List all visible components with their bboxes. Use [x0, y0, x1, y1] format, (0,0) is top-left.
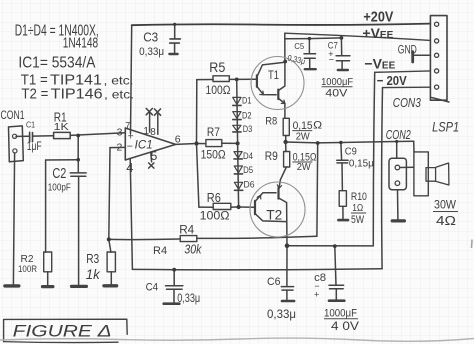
svg-text:D2: D2 — [242, 111, 252, 122]
svg-text:100Ω: 100Ω — [200, 211, 230, 223]
svg-text:100pF: 100pF — [48, 182, 71, 194]
svg-text:0,33μ: 0,33μ — [177, 293, 200, 305]
svg-text:T2: T2 — [266, 208, 282, 223]
svg-text:0,15: 0,15 — [293, 120, 313, 132]
svg-text:FIGURE Δ: FIGURE Δ — [13, 322, 112, 341]
svg-text:30k: 30k — [184, 243, 202, 257]
svg-text:, etc.: , etc. — [104, 88, 134, 102]
svg-text:D6: D6 — [244, 179, 255, 190]
svg-text:R4: R4 — [153, 245, 167, 257]
svg-text:LSP1: LSP1 — [432, 118, 459, 134]
svg-text:R10: R10 — [351, 191, 367, 203]
svg-text:4: 4 — [126, 160, 133, 175]
svg-text:1000μF: 1000μF — [324, 308, 357, 320]
svg-text:C4: C4 — [146, 282, 159, 294]
svg-text:2W: 2W — [296, 132, 311, 143]
svg-text:C6: C6 — [267, 276, 281, 288]
svg-text:Ω: Ω — [313, 119, 322, 131]
svg-text:C3: C3 — [143, 30, 158, 44]
svg-text:8: 8 — [150, 127, 156, 138]
svg-text:CON2: CON2 — [386, 127, 412, 142]
svg-text:4 0V: 4 0V — [331, 319, 359, 333]
svg-text:, etc.: , etc. — [104, 74, 134, 88]
svg-text:150Ω: 150Ω — [201, 150, 226, 162]
svg-text:C5: C5 — [294, 41, 304, 51]
svg-text:R3: R3 — [86, 252, 99, 266]
svg-text:2W: 2W — [297, 162, 312, 173]
svg-text:30W: 30W — [434, 200, 456, 212]
svg-text:CON1: CON1 — [1, 108, 25, 122]
svg-text:1000μF: 1000μF — [321, 76, 353, 88]
svg-text:6: 6 — [175, 134, 181, 146]
svg-text:TIP146: TIP146 — [51, 86, 103, 103]
svg-text:+20V: +20V — [363, 10, 393, 26]
svg-text:R6: R6 — [207, 191, 221, 205]
svg-text:3: 3 — [117, 127, 123, 139]
svg-text:−: − — [127, 141, 133, 153]
svg-text:C1: C1 — [26, 120, 35, 130]
svg-text:4Ω: 4Ω — [436, 214, 456, 228]
svg-text:1: 1 — [143, 125, 149, 137]
svg-text:5W: 5W — [351, 214, 364, 226]
svg-text:1μF: 1μF — [27, 139, 42, 153]
svg-text:1K: 1K — [54, 122, 69, 133]
svg-text:IC1: IC1 — [135, 140, 153, 152]
svg-text:R8: R8 — [265, 116, 277, 128]
svg-text:D5: D5 — [243, 165, 253, 176]
svg-text:−: − — [329, 55, 334, 65]
svg-text:D1: D1 — [242, 96, 252, 107]
svg-text:+: + — [314, 290, 319, 300]
svg-text:1N4148: 1N4148 — [63, 36, 98, 52]
svg-text:1k: 1k — [86, 266, 101, 282]
svg-text:0,33μ: 0,33μ — [267, 307, 296, 321]
svg-text:R7: R7 — [207, 125, 220, 139]
svg-text:T1: T1 — [268, 70, 279, 82]
svg-text:R9: R9 — [265, 149, 278, 163]
svg-text:100R: 100R — [18, 264, 37, 275]
svg-text:GND: GND — [398, 44, 417, 56]
svg-text:IC1= 5534/A: IC1= 5534/A — [18, 55, 95, 72]
svg-text:C9: C9 — [345, 147, 357, 158]
svg-text:0,33μ: 0,33μ — [139, 46, 164, 58]
svg-text:− 20V: − 20V — [377, 73, 407, 88]
svg-text:100Ω: 100Ω — [206, 85, 231, 97]
svg-text:R5: R5 — [209, 59, 225, 75]
svg-text:40V: 40V — [325, 88, 348, 100]
svg-text:D4: D4 — [243, 151, 253, 162]
svg-text:C2: C2 — [52, 166, 66, 182]
svg-text:T2 =: T2 = — [21, 86, 48, 103]
svg-text:D3: D3 — [243, 124, 253, 135]
svg-text:CON3: CON3 — [393, 95, 422, 110]
svg-text:0,15μ: 0,15μ — [349, 158, 374, 170]
svg-text:7: 7 — [125, 121, 130, 131]
svg-text:R4: R4 — [179, 223, 194, 237]
svg-text:2: 2 — [117, 142, 123, 154]
svg-text:1Ω: 1Ω — [352, 203, 363, 214]
